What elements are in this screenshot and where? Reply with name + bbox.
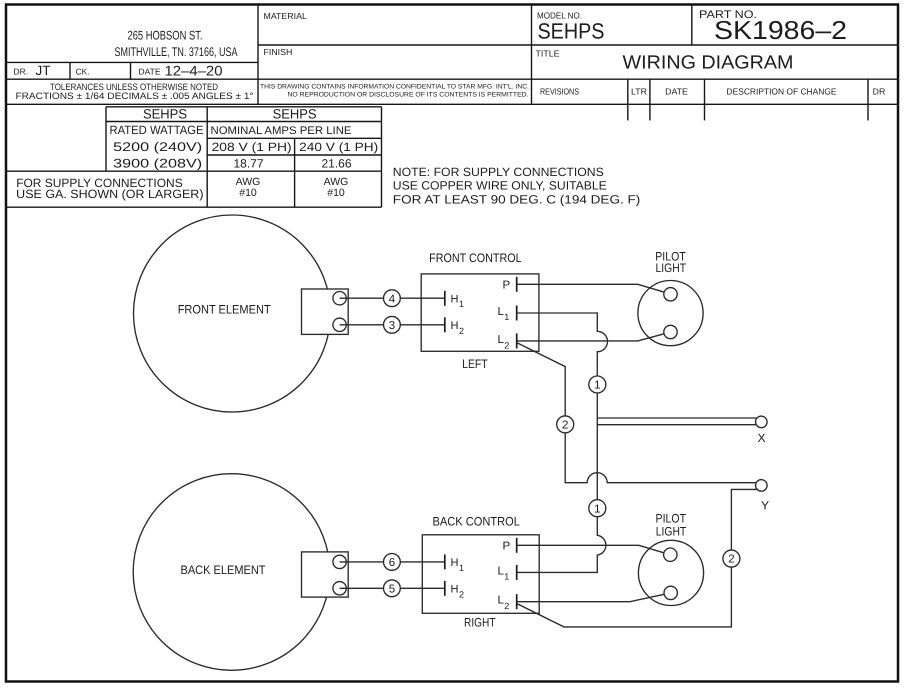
- svg-text:2: 2: [504, 340, 509, 350]
- svg-text:240 V (1 PH): 240 V (1 PH): [299, 140, 378, 154]
- svg-text:1: 1: [594, 380, 600, 392]
- svg-text:SEHPS: SEHPS: [273, 107, 317, 122]
- svg-text:H: H: [451, 320, 459, 332]
- svg-text:FRONT ELEMENT: FRONT ELEMENT: [178, 302, 271, 316]
- svg-text:CK.: CK.: [76, 67, 90, 77]
- svg-text:18.77: 18.77: [233, 157, 263, 171]
- wire marker 2 (back): [723, 550, 740, 567]
- svg-text:1: 1: [459, 563, 464, 573]
- title block text: [14, 9, 886, 101]
- wire marker 4: [384, 290, 401, 307]
- svg-text:BACK CONTROL: BACK CONTROL: [432, 515, 520, 529]
- back element E2: [133, 474, 330, 671]
- svg-text:SEHPS: SEHPS: [143, 107, 187, 122]
- svg-text:LEFT: LEFT: [462, 357, 488, 371]
- svg-text:5: 5: [389, 583, 395, 595]
- svg-text:H: H: [451, 557, 459, 569]
- ratings table lines: [6, 107, 382, 207]
- wire H1 front (element to control): [340, 297, 445, 299]
- wire 1: front L1 to node X and back control L1: [517, 313, 757, 572]
- front element terminal box: [302, 289, 349, 334]
- terminal L2 back control: [498, 594, 517, 611]
- svg-text:H: H: [451, 293, 459, 305]
- svg-text:WIRING DIAGRAM: WIRING DIAGRAM: [623, 53, 794, 74]
- svg-text:#10: #10: [239, 187, 257, 199]
- svg-text:FRACTIONS ± 1/64 DECIMALS: FRACTIONS ± 1/64 DECIMALS ± .005 ANGLES …: [16, 91, 254, 101]
- svg-text:RIGHT: RIGHT: [464, 616, 496, 630]
- svg-text:1: 1: [594, 503, 600, 515]
- svg-text:2: 2: [728, 554, 734, 566]
- svg-text:21.66: 21.66: [321, 157, 351, 171]
- wire L2 back to pilot: [517, 594, 665, 601]
- svg-text:MATERIAL: MATERIAL: [264, 11, 307, 21]
- svg-text:LTR: LTR: [631, 87, 647, 97]
- svg-text:SEHPS: SEHPS: [538, 19, 605, 44]
- pilot PL2 bottom terminal: [664, 586, 677, 599]
- svg-text:2: 2: [562, 420, 568, 432]
- wire P back to pilot: [517, 545, 664, 553]
- terminal H1 front control: [445, 291, 464, 309]
- svg-text:DESCRIPTION OF CHANGE: DESCRIPTION OF CHANGE: [727, 87, 837, 97]
- wire H2 back (element to control): [340, 587, 445, 589]
- svg-text:SK1986–2: SK1986–2: [714, 15, 847, 45]
- back element terminal box: [302, 552, 349, 597]
- svg-text:PILOT: PILOT: [656, 511, 687, 525]
- svg-text:THIS DRAWING CONTAINS INFOR: THIS DRAWING CONTAINS INFORMATION CONFID…: [260, 84, 529, 91]
- svg-text:5200 (240V): 5200 (240V): [113, 140, 202, 154]
- svg-text:NO REPRODUCTION OR DISCLOSU: NO REPRODUCTION OR DISCLOSURE OF ITS CON…: [288, 92, 529, 99]
- svg-text:FRONT CONTROL: FRONT CONTROL: [429, 251, 522, 265]
- front control U1: [421, 251, 539, 371]
- svg-text:DATE: DATE: [665, 87, 688, 97]
- svg-text:FINISH: FINISH: [264, 47, 293, 57]
- svg-text:12–4–20: 12–4–20: [165, 63, 223, 79]
- pilot PL1 top terminal: [664, 288, 677, 301]
- svg-text:1: 1: [504, 572, 509, 582]
- terminal P back control: [503, 538, 517, 553]
- terminal L2 front control: [498, 333, 517, 350]
- svg-text:P: P: [503, 540, 511, 552]
- back control U2: [422, 515, 539, 630]
- pilot light PL2 (back): [638, 511, 703, 605]
- wire marker 5: [384, 580, 401, 597]
- pilot PL1 bottom terminal: [664, 325, 677, 338]
- svg-text:DR: DR: [873, 87, 886, 97]
- wire marker 6: [384, 554, 401, 571]
- svg-text:1: 1: [504, 312, 509, 322]
- svg-text:208 V (1 PH): 208 V (1 PH): [212, 140, 292, 154]
- svg-text:265 HOBSON ST.: 265 HOBSON ST.: [128, 29, 203, 43]
- svg-text:RATED WATTAGE: RATED WATTAGE: [110, 123, 204, 137]
- svg-text:1: 1: [459, 299, 464, 309]
- wire marker 3: [384, 316, 401, 333]
- svg-text:X: X: [757, 431, 765, 445]
- terminal H2 back control: [445, 581, 464, 600]
- supply note text: [393, 165, 641, 207]
- svg-text:Y: Y: [761, 499, 769, 513]
- svg-text:DATE: DATE: [139, 67, 161, 77]
- svg-text:2: 2: [459, 589, 464, 599]
- terminal H1 back control: [445, 554, 464, 573]
- svg-text:AWG: AWG: [236, 176, 261, 188]
- svg-text:NOMINAL AMPS PER LINE: NOMINAL AMPS PER LINE: [211, 125, 352, 137]
- svg-text:LIGHT: LIGHT: [656, 261, 687, 275]
- svg-text:3: 3: [389, 320, 395, 332]
- svg-text:#10: #10: [327, 187, 345, 199]
- svg-text:P: P: [503, 279, 511, 291]
- svg-text:H: H: [451, 584, 459, 596]
- node Y terminal: [756, 480, 770, 513]
- terminal L1 front control: [498, 306, 517, 323]
- svg-text:6: 6: [389, 557, 395, 569]
- wire marker 1 (front): [589, 376, 606, 393]
- title block lines: [6, 5, 898, 121]
- svg-text:JT: JT: [36, 63, 51, 78]
- svg-text:TITLE: TITLE: [536, 49, 560, 59]
- pilot PL2 top terminal: [664, 548, 677, 561]
- svg-text:DR.: DR.: [14, 67, 29, 77]
- svg-text:4: 4: [389, 293, 396, 305]
- node X terminal: [756, 416, 768, 445]
- svg-text:AWG: AWG: [324, 176, 349, 188]
- terminal P front control: [503, 277, 517, 292]
- terminal H2 front control: [445, 317, 464, 336]
- svg-text:USE GA. SHOWN (OR LARGER): USE GA. SHOWN (OR LARGER): [16, 187, 203, 201]
- pilot light PL1 (front): [638, 250, 703, 346]
- ratings table text: [16, 107, 378, 201]
- svg-text:2: 2: [459, 326, 464, 336]
- svg-text:SMITHVILLE, TN. 37166, USA: SMITHVILLE, TN. 37166, USA: [115, 45, 238, 59]
- wire H2 front (element to control): [340, 324, 445, 326]
- terminal L1 back control: [498, 565, 517, 582]
- svg-text:REVISIONS: REVISIONS: [540, 87, 579, 97]
- svg-text:3900 (208V): 3900 (208V): [113, 157, 202, 171]
- wire 2: front L2 to node Y and back control L2: [517, 343, 757, 627]
- wire marker 2 (front): [557, 416, 574, 433]
- front element E1: [134, 215, 331, 412]
- svg-text:NOTE: FOR SUPPLY CONNECTI: NOTE: FOR SUPPLY CONNECTIONS: [393, 165, 604, 179]
- wire marker 1 (back): [589, 500, 606, 517]
- svg-text:LIGHT: LIGHT: [656, 525, 687, 539]
- svg-text:2: 2: [504, 601, 509, 611]
- svg-text:USE COPPER WIRE ONLY, SUIT: USE COPPER WIRE ONLY, SUITABLE: [393, 178, 607, 192]
- wire L2 front to pilot: [517, 334, 664, 341]
- svg-text:FOR AT LEAST 90 DEG. C (: FOR AT LEAST 90 DEG. C (194 DEG. F): [393, 193, 641, 207]
- wire H1 back (element to control): [340, 561, 445, 563]
- svg-text:BACK ELEMENT: BACK ELEMENT: [181, 563, 266, 577]
- wire P front to pilot: [517, 284, 665, 292]
